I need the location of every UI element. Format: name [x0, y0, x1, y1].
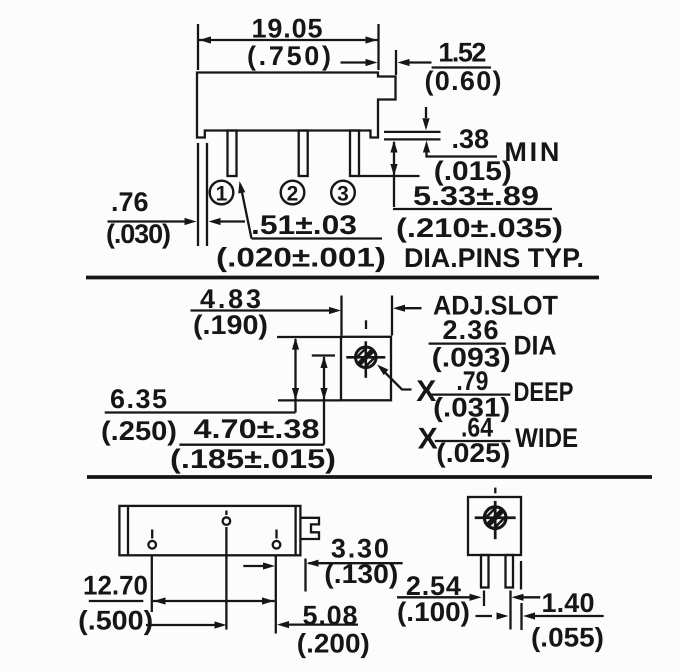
dim 3.30 left arrow	[243, 565, 266, 567]
standoff line lower	[384, 138, 441, 140]
svg-text:1.40: 1.40	[542, 588, 595, 618]
svg-text:(.185±.015): (.185±.015)	[170, 444, 336, 474]
dim 6.35 double arrow	[294, 339, 296, 413]
pin label 1	[210, 181, 234, 206]
svg-text:MIN: MIN	[504, 137, 559, 167]
dim 1.40 line and arrows	[476, 615, 493, 617]
dim .51 fraction bar	[252, 237, 383, 239]
right edge extension line	[304, 559, 306, 592]
svg-text:.38: .38	[452, 124, 490, 154]
adj slot extension lines	[340, 296, 342, 336]
svg-text:(.025): (.025)	[436, 438, 510, 468]
hole 1 extension line	[151, 556, 153, 612]
pin bottom reference line	[359, 175, 420, 177]
seating plane line upper	[384, 131, 441, 133]
body side view outline	[197, 73, 396, 138]
svg-text:(.100): (.100)	[397, 597, 470, 627]
pin 3	[350, 131, 359, 177]
dim 5.33 fraction bar	[393, 208, 552, 210]
box top extension line	[277, 336, 340, 338]
svg-text:X: X	[418, 423, 438, 456]
svg-text:5.08: 5.08	[303, 600, 358, 630]
end view right extension line	[520, 561, 522, 590]
dim 5.08 left arrow	[146, 624, 216, 626]
dim 3.30 right arrow and bar	[307, 560, 319, 567]
bottom view right cap line	[294, 506, 296, 555]
slot tick above side box	[365, 320, 367, 329]
svg-text:(.250): (.250)	[101, 416, 177, 446]
svg-text:(.130): (.130)	[324, 559, 398, 589]
dim 1.40 tick right	[520, 603, 522, 630]
dim .64 fraction bar	[435, 440, 511, 442]
dim 4.83 line and arrow	[191, 309, 334, 311]
hole pin 2 centerline	[225, 527, 227, 630]
svg-text:5.33±.89: 5.33±.89	[413, 181, 539, 211]
bottom view side tab	[301, 518, 320, 539]
dim .76 line and arrows	[108, 220, 189, 222]
svg-text:(.210±.035): (.210±.035)	[396, 213, 563, 243]
svg-text:.51±.03: .51±.03	[251, 210, 357, 240]
svg-text:WIDE: WIDE	[515, 423, 578, 453]
dim .79 fraction bar	[430, 393, 510, 395]
screw head end view	[475, 501, 516, 539]
dim 19.05 extension lines	[197, 24, 199, 70]
dim 2.54 tick right	[509, 591, 511, 630]
svg-text:(.200): (.200)	[297, 629, 370, 659]
svg-text:1: 1	[216, 183, 228, 206]
screw head side view	[346, 341, 385, 378]
dim 5.33 double arrow	[393, 142, 395, 207]
end view slot tick	[494, 488, 496, 494]
svg-text:4.70±.38: 4.70±.38	[194, 414, 320, 444]
svg-text:(.020±.001): (.020±.001)	[216, 243, 386, 273]
separator line 2	[87, 475, 652, 479]
pin label 2	[281, 181, 305, 206]
svg-text:(.030): (.030)	[106, 219, 171, 249]
box bottom extension line	[278, 399, 340, 401]
screw center extension line	[312, 354, 335, 356]
dim 12.70 line	[153, 600, 275, 602]
leader DEEP arrow	[375, 362, 389, 375]
pin 2	[299, 131, 308, 177]
dim 12.70 fraction bar	[89, 600, 144, 602]
svg-text:1.52: 1.52	[438, 38, 486, 68]
dim 2.36 fraction bar	[429, 342, 506, 344]
dim 2.54 tick left	[483, 591, 485, 607]
dim 5.08 right arrow	[277, 621, 289, 628]
svg-text:.79: .79	[456, 366, 488, 396]
hole pin 2	[223, 517, 231, 525]
dim 1.52 fraction bar	[432, 66, 491, 68]
hole 3 extension line	[275, 556, 277, 634]
dim .38 down arrow	[425, 107, 427, 118]
dim 4.70 fraction bar	[179, 444, 324, 446]
pin 1	[228, 131, 237, 177]
svg-text:12.70: 12.70	[83, 570, 148, 600]
dim 2.54 line and arrows	[397, 596, 471, 598]
hole pin 1	[148, 541, 156, 549]
dim 6.35 fraction bar	[105, 411, 296, 413]
dim .38 fraction bar	[444, 155, 497, 157]
svg-text:19.05: 19.05	[252, 14, 323, 44]
end view box	[468, 497, 521, 555]
label ADJ.SLOT arrow	[393, 305, 405, 312]
leader .51 arrow	[241, 185, 252, 239]
svg-text:(0.60): (0.60)	[425, 66, 502, 96]
svg-text:(.190): (.190)	[193, 310, 268, 340]
pin label 3	[331, 181, 355, 206]
dim .38 up arrow	[423, 141, 430, 153]
bottom view outline	[119, 506, 300, 555]
svg-text:3: 3	[337, 183, 349, 206]
svg-text:DIA.PINS TYP.: DIA.PINS TYP.	[404, 243, 584, 273]
svg-text:6.35: 6.35	[110, 384, 167, 414]
bottom view left cap line	[127, 506, 129, 555]
svg-text:2.36: 2.36	[443, 315, 499, 345]
dim 4.70 double arrow	[323, 357, 325, 445]
svg-text:.76: .76	[111, 187, 149, 217]
side view box	[341, 337, 391, 401]
hole pin 3	[273, 541, 281, 549]
dim .76 extension lines	[197, 143, 199, 246]
end view pin left	[481, 555, 489, 588]
svg-text:(.750): (.750)	[247, 41, 331, 71]
svg-text:DEEP: DEEP	[514, 377, 574, 407]
separator line 1	[86, 276, 599, 280]
end view pin right	[506, 555, 514, 588]
svg-text:(.500): (.500)	[78, 606, 153, 636]
dim 1.52 arrows	[341, 61, 369, 63]
svg-text:DIA: DIA	[514, 331, 557, 361]
dim 19.05 line	[199, 39, 378, 41]
svg-text:(.055): (.055)	[531, 623, 604, 653]
svg-text:2: 2	[287, 183, 299, 206]
